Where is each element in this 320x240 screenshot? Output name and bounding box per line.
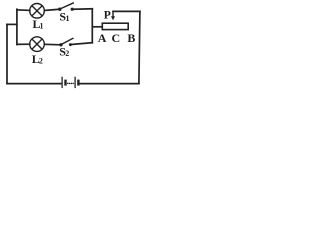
wire right main vertical [139,11,140,83]
svg-text:B: B [127,31,135,45]
wire left main vertical [6,24,8,83]
battery cell 1 long plate [61,77,63,88]
battery cell 2 long plate [74,77,76,88]
wire bottom left to battery [7,83,61,85]
battery cell 1 short thick plate [64,80,66,86]
wire right branch vertical [91,9,93,43]
lamp L1 [30,4,45,19]
svg-text:P: P [104,10,111,22]
battery dots [67,83,74,85]
wire lamp L1 to switch S1 [44,9,58,10]
wire branch2 left to lamp L2 [17,43,30,45]
wire stub to rheostat terminal A [92,26,102,28]
wire top-left to lamp L1 [17,9,30,10]
switch S2 [59,38,73,47]
wire wiper to top-right corner [113,10,140,12]
wire switch S2 to right branch corner [72,43,93,45]
lamp L2 [30,37,45,52]
battery cell 2 short thick plate [77,80,79,86]
svg-text:A: A [98,31,107,45]
rheostat body [102,23,128,29]
wire battery to bottom right corner [80,83,139,85]
svg-text:C: C [112,31,121,45]
wire stub left tap [7,23,17,25]
wire switch S1 to right corner [74,8,93,10]
wire left vertical upper (top branch to branch2 tap) [16,9,18,44]
switch S1 [58,3,74,11]
rheostat wiper arrow P [111,11,115,20]
wire lamp L2 to switch S2 [45,43,60,46]
